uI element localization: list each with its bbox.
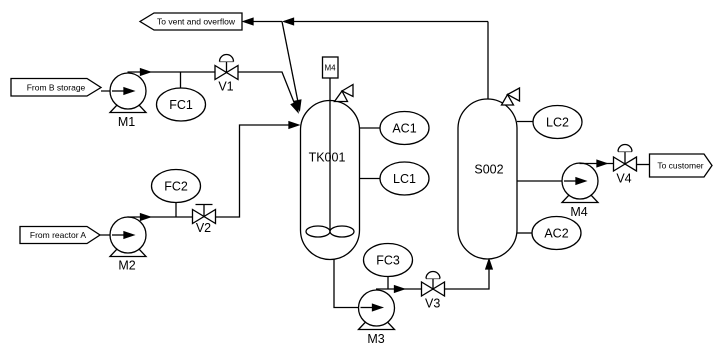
svg-text:FC2: FC2 bbox=[164, 179, 188, 193]
vessel S002 bbox=[458, 99, 517, 259]
instrument LC2 bbox=[517, 106, 582, 139]
wire valve V2 to tank TK001 bbox=[216, 122, 299, 217]
wire S002 to pump M4 bbox=[517, 178, 586, 184]
relief valve on S002 bbox=[502, 88, 520, 105]
pump M4 bbox=[562, 163, 598, 219]
instrument LC1 bbox=[360, 162, 430, 195]
flag From B storage bbox=[11, 79, 101, 97]
flag To customer bbox=[650, 154, 713, 177]
wire FC1 tap bbox=[180, 72, 182, 88]
flag From reactor A bbox=[20, 227, 100, 244]
wire from B storage flag to pump M1 bbox=[101, 88, 134, 94]
svg-text:M2: M2 bbox=[118, 259, 135, 273]
wire from reactor A flag to pump M2 bbox=[100, 232, 134, 238]
flag To vent and overflow bbox=[140, 13, 242, 30]
valve V2 bbox=[193, 205, 216, 236]
wire FC3 tap bbox=[387, 277, 389, 290]
wire FC2 tap bbox=[175, 203, 177, 218]
instrument AC1 bbox=[360, 112, 430, 145]
wire valve V4 to customer flag bbox=[637, 164, 650, 166]
svg-text:LC2: LC2 bbox=[546, 115, 569, 129]
wire M4 outlet to valve V4 bbox=[580, 160, 614, 166]
svg-text:V4: V4 bbox=[616, 171, 631, 185]
svg-text:AC1: AC1 bbox=[392, 121, 416, 135]
pump M3 bbox=[359, 290, 395, 346]
pump M2 bbox=[110, 217, 146, 273]
wire valve V1 to tank TK001 bbox=[238, 72, 298, 112]
wire valve V3 to vessel S002 bbox=[445, 260, 493, 290]
svg-text:FC3: FC3 bbox=[376, 253, 400, 267]
svg-text:From reactor A: From reactor A bbox=[30, 230, 87, 240]
svg-text:TK001: TK001 bbox=[309, 150, 346, 164]
svg-text:FC1: FC1 bbox=[169, 98, 193, 112]
svg-text:M4: M4 bbox=[570, 205, 587, 219]
wire M2 outlet to valve V2 bbox=[128, 214, 193, 220]
svg-text:AC2: AC2 bbox=[544, 226, 568, 240]
wire vent header from S002 riser to junction bbox=[284, 18, 488, 24]
valve V1 bbox=[215, 55, 238, 94]
valve V3 bbox=[422, 272, 445, 311]
wire vent junction down to tank TK001 bbox=[282, 22, 301, 111]
wire S002 riser to vent header bbox=[487, 22, 489, 101]
wire vent header junction to vent flag bbox=[244, 18, 283, 24]
svg-text:M4: M4 bbox=[324, 64, 336, 73]
svg-text:To customer: To customer bbox=[657, 160, 703, 170]
instrument FC2 bbox=[152, 170, 201, 203]
wire TK001 bottom outlet to pump M3 bbox=[334, 260, 382, 311]
agitator impeller bbox=[306, 226, 354, 237]
motor box M4 on TK001 bbox=[323, 57, 339, 78]
svg-text:V1: V1 bbox=[218, 80, 233, 94]
svg-text:From B storage: From B storage bbox=[27, 82, 86, 92]
svg-text:V3: V3 bbox=[425, 296, 440, 310]
svg-text:LC1: LC1 bbox=[393, 172, 416, 186]
instrument AC2 bbox=[517, 217, 581, 250]
wire M3 outlet to valve V3 bbox=[376, 286, 422, 292]
svg-text:M1: M1 bbox=[118, 115, 135, 129]
svg-text:M3: M3 bbox=[367, 332, 384, 346]
valve V4 bbox=[614, 145, 637, 186]
pump M1 bbox=[110, 73, 146, 129]
wire M1 outlet to valve V1 bbox=[128, 69, 216, 75]
instrument FC1 bbox=[157, 88, 206, 121]
agitator shaft bbox=[329, 78, 331, 232]
instrument FC3 bbox=[364, 244, 413, 277]
relief valve on TK001 bbox=[335, 85, 354, 102]
vessel TK001 bbox=[301, 101, 360, 260]
svg-text:To vent and overflow: To vent and overflow bbox=[157, 16, 236, 26]
svg-text:S002: S002 bbox=[474, 162, 503, 176]
svg-text:V2: V2 bbox=[196, 221, 211, 235]
